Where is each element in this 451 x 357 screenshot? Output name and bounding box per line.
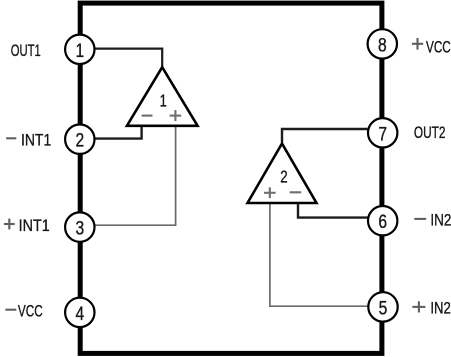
wire pin3 to U1 non-inverting input <box>95 126 176 225</box>
op-amp U1 inverting input marker <box>142 115 153 117</box>
label -INT1 <box>6 130 51 149</box>
wire pin5 to U2 non-inverting input <box>270 203 368 306</box>
svg-text:IN2: IN2 <box>430 298 451 317</box>
svg-text:2: 2 <box>280 166 287 186</box>
wire pin6 to U2 inverting input <box>298 203 368 218</box>
wire pin1 to U1 output <box>95 49 163 66</box>
svg-text:1: 1 <box>75 40 84 62</box>
label -VCC <box>5 301 42 320</box>
svg-text:OUT2: OUT2 <box>414 123 446 142</box>
svg-text:5: 5 <box>379 297 388 319</box>
op-amp U1 triangle <box>127 67 198 126</box>
svg-text:7: 7 <box>378 123 387 145</box>
svg-text:1: 1 <box>160 91 167 111</box>
label +IN2 <box>412 298 451 317</box>
pin 7 <box>368 118 397 147</box>
label +INT1 <box>4 216 50 235</box>
svg-text:VCC: VCC <box>426 37 451 56</box>
svg-text:3: 3 <box>75 218 84 240</box>
wire pin2 to U1 inverting input <box>95 125 142 139</box>
IC package outline <box>80 3 382 353</box>
label -IN2 <box>414 210 451 229</box>
svg-text:INT1: INT1 <box>21 130 51 149</box>
svg-text:VCC: VCC <box>18 301 43 320</box>
svg-text:OUT1: OUT1 <box>11 41 41 60</box>
pin 1 <box>65 35 94 64</box>
svg-text:4: 4 <box>75 303 84 325</box>
svg-text:IN2: IN2 <box>430 210 451 229</box>
op-amp U2 triangle <box>248 144 317 204</box>
svg-text:INT1: INT1 <box>19 216 50 235</box>
pin 2 <box>65 125 94 154</box>
pin 6 <box>368 206 397 235</box>
pin 5 <box>368 292 397 321</box>
op-amp U1 non-inverting input marker <box>170 110 182 121</box>
pin 8 <box>368 29 397 58</box>
op-amp U2 inverting input marker <box>290 191 302 193</box>
svg-text:6: 6 <box>378 211 387 233</box>
svg-text:8: 8 <box>378 34 387 56</box>
svg-text:2: 2 <box>75 130 84 152</box>
pin 4 <box>65 298 94 327</box>
pin 3 <box>65 212 94 241</box>
label +VCC <box>412 37 451 56</box>
op-amp U2 non-inverting input marker <box>264 187 276 198</box>
wire pin7 to U2 output <box>282 129 368 143</box>
